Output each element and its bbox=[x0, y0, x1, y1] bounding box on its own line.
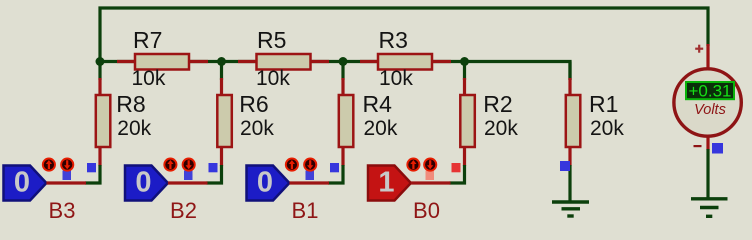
wire: voltmeter to ground bbox=[706, 149, 709, 198]
wire: B3 output pin bbox=[46, 181, 86, 184]
R3 value label bbox=[379, 67, 413, 90]
logic input B3 bbox=[4, 159, 97, 201]
wire: R4 bottom to B1 bbox=[328, 165, 343, 183]
junction node D bbox=[460, 57, 469, 66]
R5 value label bbox=[256, 67, 290, 90]
logic input B1 bbox=[247, 159, 340, 201]
svg-text:B1: B1 bbox=[292, 198, 319, 223]
svg-text:20k: 20k bbox=[364, 117, 398, 140]
B2 label bbox=[170, 198, 197, 223]
svg-text:R8: R8 bbox=[116, 91, 145, 117]
resistor R2 bbox=[460, 62, 475, 167]
ground for R1 bbox=[552, 202, 589, 216]
R1 value label bbox=[590, 117, 624, 140]
resistor R4 bbox=[339, 62, 354, 167]
resistor R8 bbox=[96, 62, 111, 167]
R7 reference label bbox=[133, 27, 162, 53]
junction node C bbox=[339, 57, 348, 66]
wire: R6 bottom to B2 bbox=[207, 165, 222, 183]
voltmeter pin state indicator (blue square) bbox=[712, 143, 723, 154]
wire: node B to node C ladder segment bbox=[222, 60, 344, 63]
R5 reference label bbox=[257, 27, 286, 53]
R3 reference label bbox=[379, 27, 408, 53]
svg-text:1: 1 bbox=[378, 167, 394, 199]
wire: node A to node B ladder segment bbox=[100, 60, 222, 63]
svg-text:Volts: Volts bbox=[694, 102, 726, 118]
R8 reference label bbox=[116, 91, 145, 117]
R6 reference label bbox=[239, 91, 268, 117]
svg-text:10k: 10k bbox=[256, 67, 290, 90]
R4 value label bbox=[364, 117, 398, 140]
resistor R7 bbox=[117, 54, 208, 70]
svg-text:R5: R5 bbox=[257, 27, 286, 53]
wire: node C to node D ladder segment bbox=[343, 60, 465, 63]
junction node A bbox=[96, 57, 105, 66]
svg-text:20k: 20k bbox=[240, 117, 274, 140]
svg-text:20k: 20k bbox=[590, 117, 624, 140]
resistor R1 bbox=[566, 62, 581, 167]
svg-text:R7: R7 bbox=[133, 27, 162, 53]
svg-text:R3: R3 bbox=[379, 27, 408, 53]
R2 value label bbox=[484, 117, 518, 140]
svg-text:B2: B2 bbox=[170, 198, 197, 223]
voltmeter plus terminal label bbox=[695, 45, 703, 53]
wire: R1 bottom to ground bbox=[568, 165, 571, 201]
resistor R3 bbox=[360, 54, 451, 70]
wire: R8 bottom to B3 bbox=[85, 165, 100, 183]
wire: output bus from node A over top to voltmeter bbox=[100, 8, 708, 62]
svg-text:0: 0 bbox=[257, 167, 273, 199]
B1 label bbox=[292, 198, 319, 223]
R2 reference label bbox=[483, 91, 512, 117]
svg-text:20k: 20k bbox=[117, 117, 151, 140]
svg-text:20k: 20k bbox=[484, 117, 518, 140]
svg-text:B3: B3 bbox=[49, 198, 76, 223]
svg-text:B0: B0 bbox=[413, 198, 440, 223]
svg-text:R1: R1 bbox=[589, 91, 618, 117]
wire: B0 output pin bbox=[411, 181, 451, 184]
resistor R6 bbox=[217, 62, 232, 167]
ground for voltmeter bbox=[691, 199, 728, 217]
logic input B2 bbox=[125, 159, 218, 201]
R1 pin state indicator (blue square) bbox=[560, 161, 570, 171]
svg-text:10k: 10k bbox=[379, 67, 413, 90]
logic input B0 bbox=[368, 159, 461, 201]
svg-text:10k: 10k bbox=[132, 67, 166, 90]
wire: B1 output pin bbox=[289, 181, 329, 184]
svg-text:R6: R6 bbox=[239, 91, 268, 117]
svg-text:R2: R2 bbox=[483, 91, 512, 117]
voltmeter minus terminal label bbox=[694, 145, 702, 147]
B0 label bbox=[413, 198, 440, 223]
R4 reference label bbox=[363, 91, 393, 117]
R8 value label bbox=[117, 117, 151, 140]
wire: node D to R1 top bbox=[465, 62, 571, 81]
svg-text:0: 0 bbox=[14, 167, 30, 199]
svg-text:0: 0 bbox=[135, 167, 151, 199]
R7 value label bbox=[132, 67, 166, 90]
wire: R2 bottom to B0 bbox=[450, 165, 465, 183]
resistor R5 bbox=[238, 54, 329, 70]
junction node B bbox=[217, 57, 226, 66]
wire: B2 output pin bbox=[168, 181, 208, 184]
voltmeter bbox=[674, 44, 741, 150]
svg-text:R4: R4 bbox=[363, 91, 393, 117]
R1 reference label bbox=[589, 91, 618, 117]
B3 label bbox=[49, 198, 76, 223]
svg-text:+0.31: +0.31 bbox=[688, 82, 731, 101]
R6 value label bbox=[240, 117, 274, 140]
